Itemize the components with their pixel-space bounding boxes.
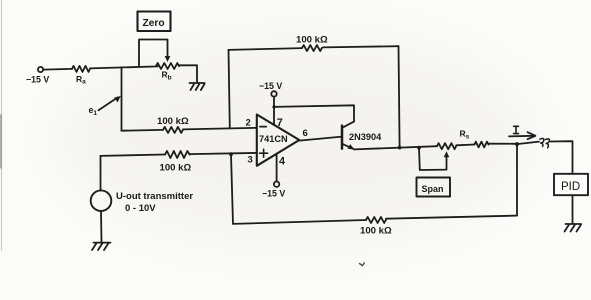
left bottom vertical wire: [231, 154, 233, 224]
stray scan mark: [360, 263, 365, 266]
svg-text:100 kΩ: 100 kΩ: [160, 163, 192, 174]
node e1 vertical wire: [121, 67, 123, 130]
wire: [183, 128, 257, 130]
svg-text:PID: PID: [561, 181, 580, 193]
wire (supply to collector): [274, 105, 354, 121]
svg-text:3: 3: [248, 155, 253, 166]
break symbol: [540, 139, 549, 148]
wire: [386, 216, 517, 219]
resistor 100k (feedback): [302, 45, 322, 51]
svg-text:−15 V: −15 V: [262, 189, 285, 199]
wire: [456, 144, 474, 147]
svg-text:2: 2: [246, 118, 251, 129]
current I arrow: [509, 132, 535, 139]
I label glyph: [514, 126, 519, 133]
pin7 supply wire: [273, 97, 275, 125]
svg-text:2N3904: 2N3904: [349, 132, 382, 142]
feedback top wire: [229, 48, 303, 50]
wire: [90, 66, 158, 68]
ground (Rb network): [190, 83, 205, 90]
wire (e1 to pin2): [122, 129, 164, 132]
svg-text:U-out transmitter: U-out transmitter: [116, 191, 193, 202]
ground (transmitter): [92, 243, 111, 250]
emitter lead with arrow: [342, 144, 354, 150]
zero wiper connector wire: [139, 40, 168, 67]
resistor (output series): [475, 142, 489, 148]
span wiper loop wire: [419, 148, 447, 170]
svg-text:741CN: 741CN: [259, 134, 288, 144]
svg-text:Span: Span: [422, 184, 444, 194]
svg-text:100 kΩ: 100 kΩ: [157, 116, 189, 127]
transmitter vertical wire: [100, 156, 102, 191]
svg-text:7: 7: [277, 117, 283, 129]
junction node I: [515, 142, 519, 146]
feedback left vertical wire: [229, 50, 230, 128]
svg-text:Zero: Zero: [143, 18, 165, 29]
pin4 supply terminal: [274, 182, 279, 187]
potentiometer Rb: [156, 63, 179, 69]
emitter rail wire: [355, 146, 437, 149]
wire (pin3 input): [101, 155, 166, 156]
pin7 supply terminal: [271, 91, 276, 96]
wire (right return up): [516, 144, 518, 216]
output wire pin6: [299, 137, 342, 141]
wire to break: [519, 142, 539, 144]
wiper arrow (span): [444, 151, 450, 157]
wire: [489, 143, 518, 145]
junction (feedback): [398, 146, 402, 150]
PID box: [554, 174, 588, 195]
svg-text:100 kΩ: 100 kΩ: [296, 35, 328, 46]
wire: [323, 46, 399, 47]
span pot body: [437, 143, 456, 149]
wire: [190, 153, 257, 154]
minus input mark: [260, 126, 266, 128]
scan edge artifact line: [1, 0, 3, 250]
transmitter source circle: [91, 190, 112, 211]
junction: [272, 105, 275, 108]
resistor 100k (bottom): [366, 217, 386, 223]
junction node: [229, 152, 233, 156]
svg-text:6: 6: [303, 128, 308, 139]
wire: [43, 68, 72, 71]
Zero box: [138, 12, 171, 32]
wiper arrow of Rb: [165, 53, 171, 63]
wire below transmitter: [100, 211, 103, 242]
ground (PID): [565, 224, 582, 232]
svg-text:0 - 10V: 0 - 10V: [125, 203, 156, 214]
svg-text:4: 4: [279, 156, 285, 168]
svg-text:−15 V: −15 V: [26, 75, 49, 85]
wire below PID: [572, 195, 574, 223]
transistor Q1 2N3904 base bar: [341, 126, 344, 149]
collector lead: [342, 122, 354, 128]
wire: [179, 65, 197, 82]
svg-text:−15 V: −15 V: [259, 81, 282, 91]
resistor Ra: [72, 66, 90, 72]
plus input mark: [260, 149, 268, 157]
feedback right vertical wire: [399, 46, 400, 147]
Span box: [417, 178, 451, 197]
pin4 supply wire: [276, 154, 278, 181]
terminal -15V input: [38, 67, 43, 72]
resistor 100k (input, pin2): [163, 127, 183, 133]
bottom wire: [233, 220, 366, 224]
resistor 100k (input, pin3): [165, 151, 190, 158]
e1 pointer arrow: [99, 96, 121, 110]
junction (span wiper tap): [417, 146, 421, 150]
wire from break to PID: [551, 141, 573, 174]
svg-text:100 kΩ: 100 kΩ: [360, 226, 392, 237]
op-amp U1 triangle: [257, 115, 300, 166]
